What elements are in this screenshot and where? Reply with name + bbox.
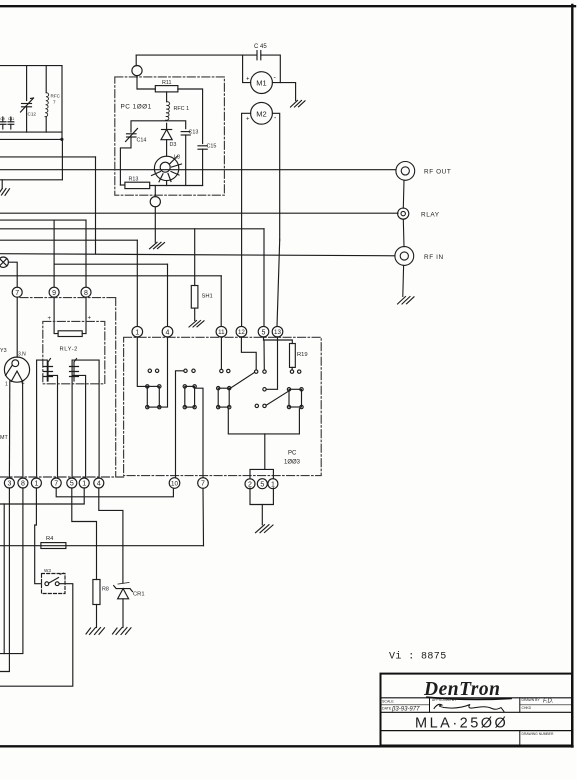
svg-text:+: + [246, 77, 250, 83]
divider under logo [381, 697, 573, 699]
wire: node B to ground [154, 207, 156, 243]
svg-text:F.D.: F.D. [543, 699, 554, 705]
wire: R8 to ground [96, 605, 98, 628]
svg-text:9: 9 [52, 290, 56, 297]
svg-text:1: 1 [271, 481, 275, 488]
wire: left block lower right side [61, 139, 63, 179]
divider below MLA row [381, 730, 573, 732]
wire: t7c drop to R4 bus [202, 488, 205, 545]
svg-text:M1: M1 [256, 79, 266, 88]
wire: t5 to R19 [264, 337, 293, 344]
wire: t3 stair exit [0, 488, 9, 672]
terminal 4 [162, 326, 173, 337]
wire: RF IN bus [0, 254, 395, 256]
cell divider approved/drawn [519, 698, 521, 713]
wire: inner shelf [131, 121, 186, 132]
terminal 1b [79, 478, 89, 488]
terminal 1 [132, 326, 143, 337]
svg-text:C15: C15 [207, 144, 217, 150]
relay coil RLY-2 [58, 331, 82, 337]
svg-text:7: 7 [54, 481, 58, 488]
contact dots 12 [255, 370, 258, 373]
wire: RF OUT bus [0, 169, 396, 171]
contact dots lower center [255, 404, 258, 407]
capacitor C11 (left edge, partial) [10, 117, 12, 122]
svg-text:SH1: SH1 [202, 294, 213, 300]
connector J1 RF OUT [396, 162, 415, 181]
capacitor C45 [256, 51, 258, 60]
wire: drop (x72) [71, 360, 73, 478]
terminal 13 [272, 326, 283, 337]
connector J3 RF IN [395, 247, 414, 266]
terminal 4 [94, 478, 104, 488]
resistor R11 [155, 86, 178, 92]
wire: contact riser a [37, 360, 48, 381]
title block outer frame [381, 674, 573, 746]
svg-text:DRAWING NUMBER: DRAWING NUMBER [522, 732, 554, 736]
terminal 5 [67, 478, 77, 488]
resistor R19 [290, 344, 296, 368]
wire: drop 9 [53, 220, 55, 287]
terminal 12 [236, 326, 247, 337]
terminal 5c [257, 479, 267, 489]
wire: 7 to tube grid [16, 297, 18, 357]
wire: R11 right lead [178, 89, 203, 144]
wire: M2 minus drop to terminal 13 [272, 113, 279, 240]
svg-text:RF OUT: RF OUT [424, 169, 451, 176]
capacitor C9 (left edge, partial) [2, 117, 4, 122]
inductor RFC1 [166, 102, 170, 121]
svg-text:SCALE: SCALE [382, 700, 394, 704]
wire: drop (x99) [98, 381, 100, 478]
wire: contact riser b [72, 360, 99, 381]
diode D3 [162, 129, 172, 131]
svg-text:RLAY: RLAY [421, 212, 440, 219]
svg-text:10: 10 [171, 481, 178, 488]
svg-text:D3: D3 [170, 142, 177, 148]
wire: top bus of left block [0, 65, 62, 67]
wire: branch to terminal 4 [54, 263, 167, 265]
svg-text:5: 5 [70, 481, 74, 488]
wire: t12 jog to pole [241, 337, 256, 370]
inductor RFC7 coil [45, 93, 49, 117]
cell divider bottom row [519, 731, 521, 746]
tube V1 envelope [4, 357, 29, 382]
svg-text:1: 1 [34, 481, 38, 488]
svg-text:7: 7 [201, 481, 205, 488]
diode CR1 (zener) [118, 589, 129, 599]
relay arm diagonal 2 [266, 390, 290, 405]
node A (plate cap) [132, 66, 142, 76]
wire: bus at 156.9 [0, 156, 96, 158]
svg-text:DRAWN BY: DRAWN BY [522, 698, 541, 702]
resistor R4 [41, 543, 66, 549]
svg-text:L3: L3 [174, 155, 180, 161]
svg-text:RLY-2: RLY-2 [60, 347, 78, 353]
svg-text:2: 2 [248, 482, 252, 489]
svg-text:M2: M2 [256, 109, 266, 118]
wire: common tap down [264, 434, 266, 470]
svg-text:11: 11 [218, 329, 225, 336]
svg-text:PC 1ØØ1: PC 1ØØ1 [121, 104, 152, 111]
terminal 8 [81, 287, 91, 297]
svg-text:-: - [274, 75, 277, 82]
wire: M1 minus to ground [272, 83, 295, 101]
svg-text:β3-93-977: β3-93-977 [391, 707, 420, 713]
wire: lamp to terminal 7 [8, 262, 17, 287]
connector block 2-5-1 [250, 469, 273, 478]
wire: M1 plus lead [243, 55, 251, 83]
svg-text:12: 12 [238, 329, 245, 336]
relay RLY-2 enclosure [43, 321, 105, 383]
contact set B frame [185, 386, 195, 407]
capacitor C12 (variable) [22, 103, 32, 105]
wire: t11 to pole [220, 337, 222, 369]
wire: common bus under contacts [228, 409, 299, 434]
svg-text:8: 8 [84, 290, 88, 297]
svg-text:PC: PC [288, 451, 297, 457]
wire: C45 left lead [136, 54, 257, 56]
svg-text:CHKD: CHKD [522, 706, 532, 710]
wire: drop 8 [85, 220, 87, 287]
wire: left block bottom [0, 131, 62, 133]
terminal 2 [245, 479, 255, 489]
wire: drop 1 (x36) [36, 360, 38, 478]
PC-1001 dash-dot enclosure [115, 77, 225, 195]
meter M2 [251, 102, 273, 124]
tube grid cap [12, 360, 19, 367]
terminal 1c [268, 479, 278, 489]
ground (below RF IN) [398, 297, 415, 305]
wire: RLAY bus [0, 212, 398, 214]
inductor L3 (rotary) [154, 156, 178, 180]
divider above MLA row [381, 711, 573, 713]
wire: drop to output node [154, 186, 156, 197]
terminal 9 [49, 287, 59, 297]
wire: bus with junction [0, 138, 62, 140]
svg-text:+: + [246, 117, 250, 123]
svg-text:Y3: Y3 [0, 348, 7, 354]
capacitor C13 [181, 131, 190, 133]
wire: R11 to RFC1 [166, 92, 168, 102]
wire: t5 down to contact [263, 340, 265, 370]
dash-dot chassis bottom [0, 476, 124, 478]
svg-text:1: 1 [82, 481, 86, 488]
ground (block) [256, 525, 274, 533]
wire: shunt bus [0, 275, 221, 277]
dash-dot chassis drop [115, 298, 117, 477]
relay arm diagonal 1 [230, 372, 255, 388]
wire: bottom rail of PC-1001 [150, 185, 203, 187]
resistor R13 [125, 182, 150, 188]
terminal 1 [31, 478, 41, 488]
wire: switch to corner exit [0, 584, 73, 687]
svg-text:Vi : 8875: Vi : 8875 [389, 651, 447, 663]
wire: t4 to CR1 [99, 488, 123, 583]
wire: RF OUT to RLAY [402, 180, 405, 208]
wire: RLAY to RF IN [402, 219, 405, 246]
contact set B pole dots [184, 369, 187, 372]
PC-1003 dash-dot enclosure [124, 337, 322, 475]
contact set A frame [147, 386, 159, 407]
wire: t1b to left edge [0, 488, 84, 504]
terminal 10 [169, 478, 180, 489]
wire: drop to terminal 11 [220, 276, 222, 327]
svg-text:DATE: DATE [382, 707, 392, 711]
wire: drop to terminal 4 [167, 264, 169, 326]
svg-text:4: 4 [166, 329, 170, 336]
terminal 3 [4, 478, 14, 488]
wire: R4 bus [0, 545, 204, 547]
terminal 8 [18, 478, 28, 488]
switch S1 enclosure [42, 574, 66, 594]
wire: stub to ground [1, 180, 3, 189]
terminal 7 [12, 287, 22, 297]
ground (CR1) [113, 628, 132, 635]
svg-text:7: 7 [15, 290, 19, 297]
wire: B pole to terminal 10 [176, 371, 184, 478]
svg-text:+: + [48, 316, 52, 322]
contact set D frame [289, 389, 302, 407]
contact dot 13 [263, 388, 266, 391]
wire: drop (x84) [72, 375, 86, 478]
terminal 7 [51, 478, 61, 488]
wire: D3 to L3 [166, 140, 168, 157]
wire: t1 to switch [35, 488, 42, 584]
svg-text:4: 4 [97, 481, 101, 488]
wire: drop to terminal 1 [136, 240, 138, 326]
wire: CR1 to ground [122, 599, 124, 628]
wire: RF IN to ground [402, 265, 405, 296]
node junction dot [60, 138, 63, 141]
cell divider scale/approved [429, 698, 431, 713]
svg-text:-: - [274, 115, 277, 122]
wire: RFC1 to diode [166, 123, 168, 129]
wire: B to terminal 7 [195, 388, 203, 477]
wire: riser from node to C45 bus [135, 55, 137, 66]
wire: R19 bottom [291, 367, 293, 370]
svg-text:7: 7 [53, 100, 56, 105]
wire: t13 drop [266, 337, 277, 389]
svg-text:C11: C11 [8, 117, 14, 121]
wire: shunt riser [194, 229, 196, 286]
resistor R8 [93, 580, 100, 605]
svg-text:C14: C14 [137, 138, 147, 144]
wire: t4 into contact A [159, 337, 167, 407]
wire: RFC7 bottom lead [45, 117, 47, 132]
wire: t7 to t10 link [56, 488, 173, 497]
wire: t5 to R8 [72, 488, 97, 580]
svg-text:C 45: C 45 [254, 44, 267, 50]
svg-text:5: 5 [262, 329, 266, 336]
svg-text:RFC: RFC [51, 94, 61, 99]
svg-text:MLA·25ØØ: MLA·25ØØ [415, 716, 508, 732]
contact set C frame [218, 388, 229, 407]
contact dots 11 [220, 369, 223, 372]
wire: left block bottom edge [0, 179, 62, 181]
svg-text:1ØØ3: 1ØØ3 [284, 460, 301, 466]
lamp DS (left edge) [0, 257, 8, 267]
wire: drop stub (x57) [47, 375, 57, 478]
svg-text:W3: W3 [44, 568, 51, 573]
wire: 9 to relay coil [54, 297, 58, 333]
ground (top-left) [0, 189, 10, 196]
switch S1 [45, 582, 49, 586]
terminal 5 [258, 326, 269, 337]
wire: bus to terminal 5 of PC-1003 [0, 228, 264, 230]
wire: tube pin c drop [22, 381, 24, 478]
svg-text:RF IN: RF IN [424, 254, 444, 261]
ground (R8) [86, 628, 105, 635]
wire: L3 bottom [166, 181, 168, 186]
wire: left block right side [61, 66, 63, 140]
svg-text:13: 13 [274, 329, 281, 336]
svg-text:CR1: CR1 [133, 592, 145, 598]
wire: C45 right lead [261, 55, 281, 83]
svg-text:8: 8 [21, 481, 25, 488]
svg-text:R19: R19 [297, 352, 308, 358]
wire: shunt to ground [194, 308, 196, 320]
svg-text:1: 1 [135, 329, 139, 336]
wire: t8 stair exit [0, 488, 23, 654]
wire: M2 plus drop to terminal 12 [242, 113, 251, 326]
terminal 7c [198, 478, 209, 489]
svg-text:R8: R8 [102, 587, 109, 593]
ground (SH1) [189, 321, 204, 328]
wire: drop to terminal 5 [263, 229, 265, 327]
wire: bus to terminals 9/8 [0, 219, 86, 221]
svg-text:MT: MT [0, 435, 8, 441]
wire: node to R11 [137, 76, 155, 89]
node B (output) [150, 197, 160, 207]
wire: tube pin 1 drop [8, 381, 10, 478]
svg-text:3: 3 [7, 481, 11, 488]
contact dots R19 [290, 370, 293, 373]
contact K1a [44, 359, 53, 382]
svg-text:R13: R13 [129, 177, 139, 183]
ground (M1) [291, 101, 306, 108]
capacitor C15 [198, 145, 207, 147]
wire: R13 left lead [120, 184, 125, 186]
wire: block to ground [261, 505, 263, 525]
resistor SH1 [191, 286, 198, 309]
wire: 8 to relay coil [82, 297, 86, 333]
wire: bus to terminal 1 of PC-1003 [0, 239, 137, 241]
wire: left edge drop [3, 504, 5, 654]
tube cathode vee [11, 371, 22, 381]
wire: jog down from 156.9 bus [95, 157, 97, 254]
contact K1b [70, 359, 79, 382]
capacitor C14 (variable) [127, 133, 137, 135]
svg-text:3.N: 3.N [18, 352, 26, 358]
svg-text:1: 1 [5, 382, 8, 388]
connector J2 RLAY [398, 208, 409, 219]
wire: C14 bottom jog to R13 [120, 137, 131, 185]
wire: RFC7 top lead [45, 66, 47, 93]
svg-text:R11: R11 [162, 80, 172, 86]
dash-dot chassis line [20, 297, 116, 299]
wire: C12 bottom lead [26, 107, 28, 132]
contact set A pole dots [148, 369, 151, 372]
svg-text:5: 5 [260, 481, 264, 488]
meter M1 [251, 72, 273, 94]
svg-text:APPROVED BY: APPROVED BY [432, 698, 457, 702]
svg-text:RFC 1: RFC 1 [174, 106, 190, 112]
svg-text:R4: R4 [46, 536, 54, 542]
wire: C12 top lead [26, 66, 28, 101]
ground (node B) [150, 242, 165, 249]
wire: t1 into contact A [137, 337, 147, 386]
terminal 11 [216, 326, 227, 337]
tube element diagonal [6, 365, 13, 375]
svg-text:C12: C12 [28, 112, 37, 117]
svg-text:C9: C9 [0, 117, 5, 121]
svg-text:C13: C13 [189, 130, 199, 136]
svg-text:+: + [88, 316, 92, 322]
